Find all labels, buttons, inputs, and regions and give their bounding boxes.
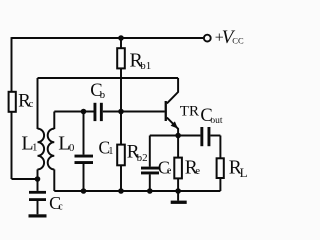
svg-text:1: 1 bbox=[108, 146, 113, 157]
svg-text:e: e bbox=[195, 166, 200, 177]
svg-text:TR: TR bbox=[180, 104, 199, 120]
svg-text:0: 0 bbox=[69, 142, 75, 154]
svg-text:c: c bbox=[58, 202, 63, 213]
svg-text:b2: b2 bbox=[137, 152, 148, 164]
svg-text:L: L bbox=[240, 165, 248, 180]
svg-text:e: e bbox=[167, 166, 172, 177]
svg-text:1: 1 bbox=[32, 141, 38, 153]
svg-text:CC: CC bbox=[232, 36, 244, 46]
svg-text:b: b bbox=[100, 89, 106, 101]
svg-text:c: c bbox=[29, 99, 34, 110]
svg-text:out: out bbox=[210, 116, 223, 126]
svg-text:b1: b1 bbox=[140, 60, 151, 72]
